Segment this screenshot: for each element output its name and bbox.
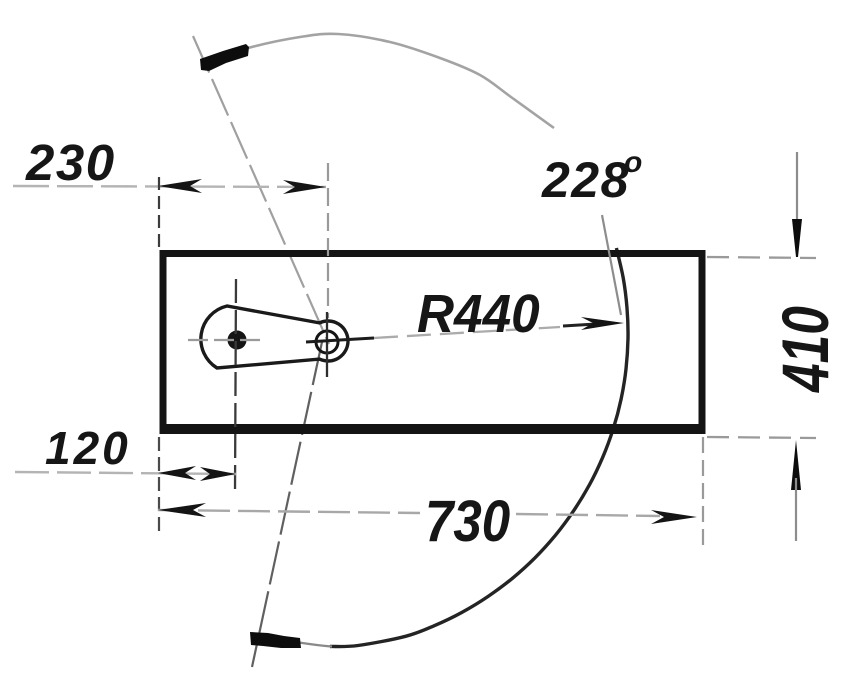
svg-text:R440: R440 [417,284,540,344]
svg-text:730: 730 [425,489,510,554]
svg-text:228o: 228o [541,146,644,208]
svg-text:230: 230 [25,134,116,191]
svg-text:410: 410 [768,306,843,393]
svg-text:120: 120 [45,422,131,474]
